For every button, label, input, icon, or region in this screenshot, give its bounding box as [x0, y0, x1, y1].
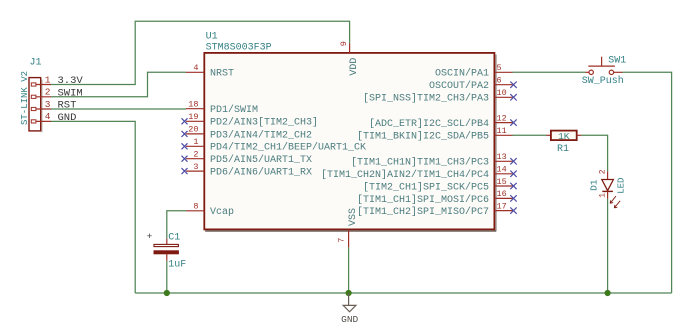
- svg-text:3: 3: [193, 162, 198, 172]
- svg-text:7: 7: [337, 238, 347, 243]
- svg-text:2: 2: [598, 169, 607, 174]
- junction LED/GND rail: [605, 290, 611, 296]
- svg-text:OSCOUT/PA2: OSCOUT/PA2: [429, 80, 489, 92]
- svg-text:PD3/AIN4/TIM2_CH2: PD3/AIN4/TIM2_CH2: [210, 129, 312, 141]
- svg-text:16: 16: [497, 189, 507, 199]
- svg-text:2: 2: [193, 150, 198, 160]
- pin 20 PD3/AIN4/TIM2_CH2 (left): [182, 125, 313, 142]
- svg-text:D1: D1: [589, 179, 600, 191]
- wire 3.3V net: J1 pin1 to U1 VDD via top rail: [51, 21, 350, 84]
- pin 17 [TIM1_CH2]SPI_MISO/PC7 (right): [357, 201, 517, 218]
- svg-text:ST-LINK V2: ST-LINK V2: [20, 71, 30, 125]
- resistor R1: [547, 131, 582, 141]
- wire U1 Vcap to C1: [167, 211, 186, 239]
- svg-text:[TIM1_BKIN]I2C_SDA/PB5: [TIM1_BKIN]I2C_SDA/PB5: [357, 131, 489, 143]
- svg-text:14: 14: [497, 165, 507, 175]
- svg-text:PD6/AIN6/UART1_RX: PD6/AIN6/UART1_RX: [210, 167, 312, 179]
- svg-text:17: 17: [497, 201, 507, 211]
- svg-text:[TIM1_CH1N]TIM1_CH3/PC3: [TIM1_CH1N]TIM1_CH3/PC3: [351, 157, 489, 169]
- junction VSS/GND rail: [346, 290, 352, 296]
- pin 15 [TIM2_CH1]SPI_SCK/PC5 (right): [363, 177, 517, 194]
- svg-text:[TIM1_CH2]SPI_MISO/PC7: [TIM1_CH2]SPI_MISO/PC7: [357, 206, 489, 218]
- svg-text:PD1/SWIM: PD1/SWIM: [210, 104, 258, 116]
- pin 2 PD5/AIN5/UART1_TX (left): [182, 150, 313, 167]
- pin 5 OSCIN/PA1 (right): [435, 63, 513, 80]
- svg-text:10: 10: [497, 88, 507, 98]
- wire SWIM net: J1 pin2 up to U1 NRST: [51, 72, 186, 97]
- pin 8 Vcap (left): [186, 202, 234, 219]
- svg-text:Vcap: Vcap: [210, 207, 234, 218]
- svg-text:1K: 1K: [558, 131, 570, 142]
- svg-text:1uF: 1uF: [168, 259, 186, 270]
- pin 18 PD1/SWIM (left): [186, 100, 258, 117]
- pin 10 [SPI_NSS]TIM2_CH3/PA3 (right): [363, 88, 517, 105]
- svg-text:C1: C1: [168, 233, 180, 244]
- svg-text:[TIM1_CH1]SPI_MOSI/PC6: [TIM1_CH1]SPI_MOSI/PC6: [357, 194, 489, 206]
- svg-text:1: 1: [598, 193, 607, 198]
- LED D1: [602, 172, 620, 208]
- svg-text:13: 13: [497, 152, 507, 162]
- wire RST net: J1 pin3 to U1 PD1/SWIM: [51, 108, 186, 110]
- svg-text:19: 19: [188, 112, 198, 122]
- svg-text:J1: J1: [30, 58, 42, 69]
- svg-text:20: 20: [188, 125, 198, 135]
- svg-text:[TIM1_CH2N]AIN2/TIM1_CH4/PC4: [TIM1_CH2N]AIN2/TIM1_CH4/PC4: [321, 169, 489, 181]
- svg-text:9: 9: [339, 41, 349, 46]
- svg-text:U1: U1: [206, 31, 218, 42]
- junction C1/GND rail: [164, 290, 170, 296]
- svg-text:+: +: [147, 231, 153, 242]
- wire GND bottom rail: [135, 292, 671, 294]
- svg-text:LED: LED: [617, 178, 627, 194]
- svg-text:18: 18: [188, 100, 198, 110]
- wire LED D1 cathode to GND rail: [607, 199, 609, 293]
- svg-text:VSS: VSS: [348, 208, 359, 226]
- svg-text:GND: GND: [341, 314, 358, 325]
- wire C1 to GND rail: [166, 261, 168, 293]
- power symbol GND: [343, 293, 356, 312]
- svg-text:PD2/AIN3[TIM2_CH3]: PD2/AIN3[TIM2_CH3]: [210, 117, 318, 129]
- svg-text:3: 3: [45, 99, 51, 110]
- wire U1 OSCIN/PA1 to SW1: [513, 71, 586, 73]
- svg-text:1: 1: [45, 74, 51, 85]
- svg-text:SW_Push: SW_Push: [582, 75, 624, 87]
- wire SW1 down right rail to GND rail: [623, 72, 672, 293]
- pin 16 [TIM1_CH1]SPI_MOSI/PC6 (right): [357, 189, 517, 206]
- svg-text:1: 1: [193, 137, 198, 147]
- svg-text:SWIM: SWIM: [58, 87, 83, 99]
- pin 7 VSS (bottom): [337, 208, 359, 247]
- svg-text:15: 15: [497, 177, 507, 187]
- pin 19 PD2/AIN3[TIM2_CH3] (left): [182, 112, 319, 129]
- wire R1 to LED D1 anode: [581, 135, 607, 171]
- svg-text:OSCIN/PA1: OSCIN/PA1: [435, 68, 489, 80]
- J1 pin 4: [31, 111, 51, 123]
- wire GND net: J1 pin4 down left rail: [51, 121, 135, 293]
- pin 1 PD4/TIM2_CH1/BEEP/UART1_CK (left): [182, 137, 367, 154]
- switch SW1 SW_Push: [586, 57, 623, 75]
- pin 12 [ADC_ETR]I2C_SCL/PB4 (right): [369, 113, 517, 130]
- svg-text:NRST: NRST: [210, 69, 234, 80]
- svg-text:PD5/AIN5/UART1_TX: PD5/AIN5/UART1_TX: [210, 154, 312, 166]
- pin 11 [TIM1_BKIN]I2C_SDA/PB5 (right): [357, 126, 513, 143]
- svg-text:11: 11: [497, 126, 507, 136]
- pin 6 OSCOUT/PA2 (right): [429, 76, 517, 93]
- svg-text:4: 4: [45, 111, 51, 122]
- svg-text:3.3V: 3.3V: [58, 75, 84, 87]
- svg-text:SW1: SW1: [608, 55, 626, 66]
- pin 4 NRST (left): [186, 63, 234, 80]
- wire U1 VSS to GND rail: [348, 247, 350, 293]
- svg-text:12: 12: [497, 113, 507, 123]
- svg-text:6: 6: [497, 76, 502, 86]
- pin 14 [TIM1_CH2N]AIN2/TIM1_CH4/PC4 (right): [321, 165, 517, 182]
- svg-text:2: 2: [45, 87, 51, 98]
- svg-text:8: 8: [193, 202, 198, 212]
- connector J1 body: [29, 78, 42, 133]
- svg-text:[SPI_NSS]TIM2_CH3/PA3: [SPI_NSS]TIM2_CH3/PA3: [363, 93, 489, 105]
- capacitor C1: [147, 231, 179, 261]
- svg-text:[ADC_ETR]I2C_SCL/PB4: [ADC_ETR]I2C_SCL/PB4: [369, 118, 489, 130]
- svg-text:RST: RST: [58, 100, 77, 112]
- svg-text:[TIM2_CH1]SPI_SCK/PC5: [TIM2_CH1]SPI_SCK/PC5: [363, 181, 489, 193]
- J1 pin 3: [31, 99, 51, 111]
- wire U1 PB5 to R1: [513, 134, 547, 136]
- svg-text:VDD: VDD: [349, 58, 360, 76]
- pin 13 [TIM1_CH1N]TIM1_CH3/PC3 (right): [351, 152, 517, 169]
- pin 9 VDD (top): [339, 41, 360, 76]
- J1 pin 2: [31, 87, 51, 99]
- svg-text:STM8S003F3P: STM8S003F3P: [206, 42, 272, 53]
- J1 pin 1: [31, 74, 51, 86]
- svg-text:PD4/TIM2_CH1/BEEP/UART1_CK: PD4/TIM2_CH1/BEEP/UART1_CK: [210, 142, 366, 154]
- svg-text:R1: R1: [557, 144, 569, 155]
- op IC U1 body: [204, 53, 496, 231]
- svg-text:5: 5: [497, 63, 502, 73]
- svg-text:4: 4: [193, 63, 198, 73]
- pin 3 PD6/AIN6/UART1_RX (left): [182, 162, 313, 179]
- svg-text:GND: GND: [58, 112, 77, 124]
